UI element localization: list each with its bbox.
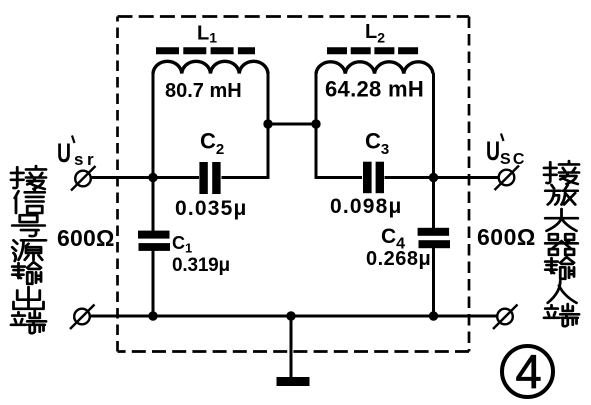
svg-text:SC: SC (500, 151, 527, 168)
char hao (number) (12, 215, 45, 236)
svg-text:0.035μ: 0.035μ (175, 197, 248, 220)
svg-text:600Ω: 600Ω (57, 225, 115, 251)
wire node C down to C3 left plate (316, 73, 362, 178)
terminal output bottom (493, 305, 518, 330)
junction node D (433,177) (429, 173, 438, 182)
annotation right column (jie fang da qi shu ru duan) (544, 161, 579, 326)
terminal Usc (output top) (495, 166, 520, 191)
svg-text:0.319μ: 0.319μ (172, 255, 230, 276)
ground (277, 377, 310, 386)
wire bottom rail (89, 315, 498, 318)
junction node B (268,124) (263, 119, 272, 128)
junction node A (153,177) (148, 173, 157, 182)
svg-text:4: 4 (516, 345, 542, 398)
wire C2 right plate to node B (222, 73, 269, 178)
figure number 4 (502, 345, 553, 398)
char ru (in) (548, 281, 577, 303)
svg-text:600Ω: 600Ω (477, 224, 536, 250)
svg-text:64.28 mH: 64.28 mH (325, 77, 424, 102)
terminal input bottom (70, 305, 95, 330)
junction bottom left (153,316) (148, 311, 157, 320)
wire link node B to node C (268, 123, 316, 126)
junction bottom right (433,316) (429, 311, 438, 320)
svg-text:0.098μ: 0.098μ (330, 195, 403, 218)
wire top rail left (Usr terminal to C2) (91, 176, 199, 179)
char shu (transmit) (12, 262, 41, 284)
wire C3 right plate to Usc terminal (385, 176, 500, 179)
wire ground stem (290, 316, 293, 378)
svg-text:U: U (486, 136, 500, 166)
inductor L2 (316, 62, 433, 74)
capacitor C1 plates (138, 231, 170, 251)
junction bottom center (291,316) (286, 311, 295, 320)
wire left branch vertical (L1 left leg and C1) (152, 73, 155, 316)
node label Usc (486, 134, 527, 169)
core of L1 (156, 47, 255, 54)
char da (big) (545, 209, 578, 231)
char duan (terminal) (544, 304, 579, 326)
svg-text:0.268μ: 0.268μ (366, 248, 431, 270)
char qi (device) (545, 234, 578, 255)
junction node C (316,124) (311, 119, 320, 128)
annotation left column (jie xin hao yuan shu chu duan) (11, 166, 46, 333)
capacitor C4 plates (418, 228, 450, 248)
capacitor C2 plates (199, 162, 220, 194)
char jie (connect) (11, 166, 46, 189)
char chu (out) (14, 287, 44, 309)
node label Usr (57, 136, 97, 170)
char shu (transmit) (545, 257, 574, 279)
svg-text:sr: sr (74, 150, 97, 169)
wire right branch vertical (L2 right leg and C4) (432, 73, 435, 316)
terminal Usr (input top) (71, 166, 96, 191)
char duan (terminal) (11, 311, 46, 333)
char fang (amplify-fang) (545, 185, 578, 205)
svg-text:U: U (57, 138, 71, 168)
char jie (connect) (544, 161, 579, 184)
enclosure dashed box (118, 17, 470, 352)
core of L2 (327, 47, 419, 54)
char xin (signal) (15, 190, 45, 213)
char yuan (source) (12, 240, 46, 261)
inductor L1 (153, 61, 268, 73)
svg-text:80.7 mH: 80.7 mH (165, 80, 242, 102)
capacitor C3 plates (363, 162, 384, 194)
